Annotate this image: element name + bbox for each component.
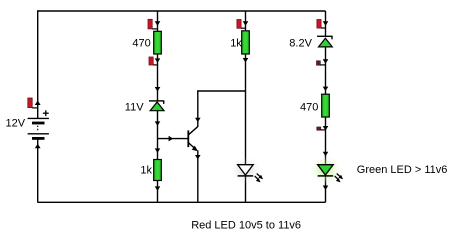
svg-text:8.2V: 8.2V bbox=[289, 37, 312, 49]
wire emitter riser bbox=[197, 150, 199, 202]
svg-text:Red LED 10v5 to 11v6: Red LED 10v5 to 11v6 bbox=[191, 219, 301, 231]
current arrow down below D3 bbox=[323, 59, 329, 64]
wire bottom rail bbox=[38, 201, 326, 203]
current arrow down below R4 bbox=[155, 186, 161, 191]
current flag col1 top bbox=[148, 19, 158, 29]
current flag col3 below R3 (small dark) bbox=[317, 127, 326, 130]
current arrow down emitter bbox=[195, 155, 201, 160]
label D1 11V bbox=[125, 102, 144, 114]
svg-text:1k: 1k bbox=[230, 38, 242, 50]
label R3 470 bbox=[300, 102, 318, 114]
battery B1 12V bbox=[28, 110, 49, 138]
wire column1 x=157.5 bbox=[157, 11, 159, 202]
current arrow up (battery bottom) bbox=[35, 144, 41, 149]
label note red LED bbox=[191, 219, 301, 231]
svg-text:1k: 1k bbox=[140, 164, 152, 176]
wire left rail upper bbox=[37, 10, 39, 118]
current arrow down col2 top bbox=[243, 21, 249, 26]
current arrow down above D1 bbox=[155, 87, 161, 92]
current arrow right on base wire bbox=[169, 136, 174, 142]
resistor R3 470 bbox=[322, 94, 330, 117]
current arrow down below R3 bbox=[323, 126, 329, 131]
LED D4 green bbox=[318, 165, 343, 183]
zener diode D3 8.2V bbox=[317, 36, 333, 47]
wire left rail lower bbox=[37, 140, 39, 203]
label battery 12V bbox=[6, 118, 26, 130]
label note green LED bbox=[357, 164, 448, 176]
wire column2 x=245.5 bbox=[245, 11, 247, 202]
wire top rail bbox=[38, 10, 326, 12]
current flag col3 below D3 (small dark) bbox=[317, 61, 326, 65]
resistor R1 470 bbox=[154, 31, 162, 54]
resistor R2 1k bbox=[242, 31, 250, 54]
LED D2 red bbox=[238, 165, 263, 183]
svg-text:11V: 11V bbox=[125, 102, 144, 114]
current flag col1 below R1 bbox=[149, 57, 158, 65]
current arrow down above R4 bbox=[155, 148, 161, 153]
zener diode D1 11V bbox=[149, 101, 164, 111]
current flag battery (red bar + tick) bbox=[28, 98, 38, 108]
label R4 1k bbox=[140, 164, 152, 176]
current arrow up (battery top) bbox=[35, 100, 41, 105]
wire collector riser bbox=[197, 91, 199, 127]
current arrow down collector bbox=[195, 118, 201, 123]
label D3 8.2V bbox=[289, 37, 312, 49]
svg-text:470: 470 bbox=[132, 37, 150, 49]
current arrow down above R3 bbox=[323, 87, 329, 92]
glow red LED (off halo) bbox=[229, 156, 261, 184]
current arrow down mid col3 bbox=[323, 152, 329, 157]
svg-text:Green LED > 11v6: Green LED > 11v6 bbox=[357, 164, 448, 176]
wire collector to column2 bbox=[197, 90, 245, 92]
current flag col3 top bbox=[317, 20, 326, 29]
resistor R4 1k bbox=[154, 160, 162, 181]
label R2 1k bbox=[230, 38, 242, 50]
svg-text:12V: 12V bbox=[6, 118, 26, 130]
transistor Q1 bbox=[188, 126, 198, 151]
wire base branch bbox=[158, 138, 188, 140]
current flag col2 top bbox=[237, 20, 246, 29]
current arrow down below R2 bbox=[243, 58, 249, 63]
current arrow down below D1 bbox=[155, 121, 161, 126]
current arrow down col1 top bbox=[155, 21, 161, 26]
current arrow down below R1 bbox=[155, 58, 161, 63]
svg-text:470: 470 bbox=[300, 102, 318, 114]
wire column3 x=325.5 bbox=[325, 11, 327, 202]
label R1 470 bbox=[132, 37, 150, 49]
current arrow down col3 top bbox=[323, 21, 329, 26]
current arrow down col3 bottom bbox=[323, 186, 329, 191]
glow green LED (lit halo) bbox=[308, 155, 342, 185]
